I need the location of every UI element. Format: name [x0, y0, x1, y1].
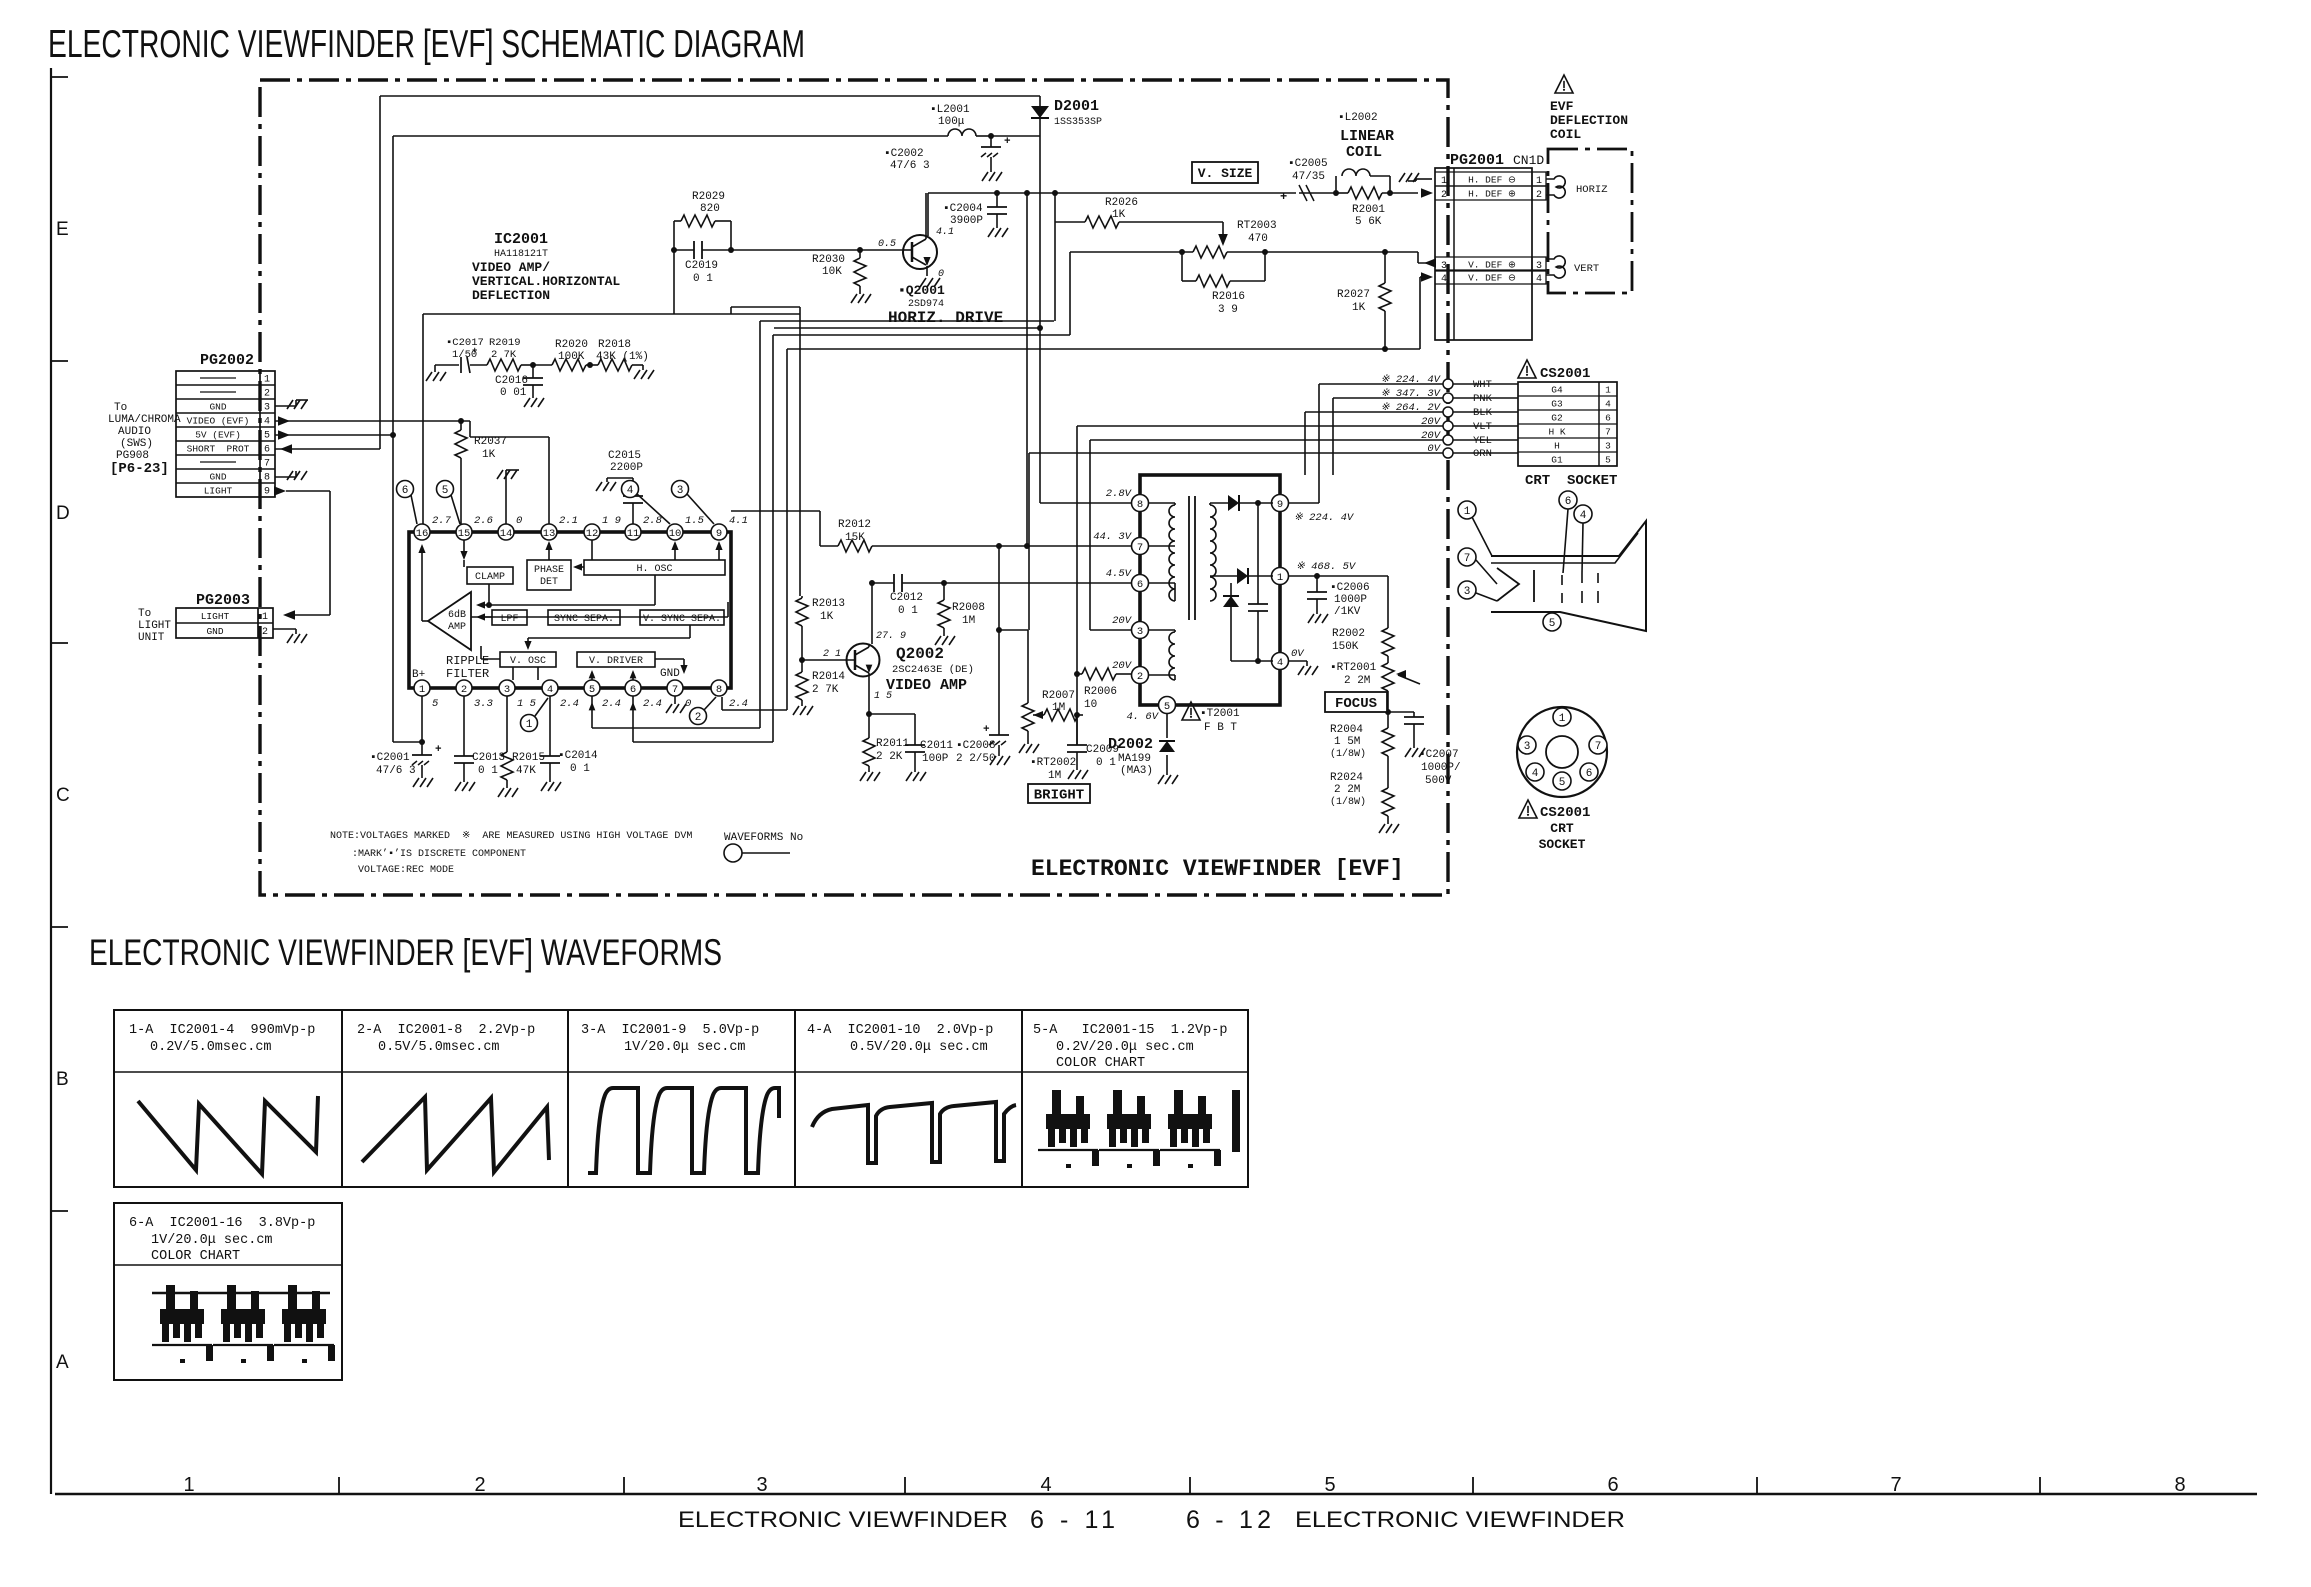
- svg-text:3 9: 3 9: [1218, 304, 1238, 316]
- wire 5V(EVF) run: [275, 434, 393, 436]
- svg-text:1K: 1K: [1112, 209, 1126, 221]
- page ruler: [55, 1474, 2257, 1496]
- wire y=307 jog: [731, 307, 800, 314]
- inductor L2002 / resistor R2001 parallel: [1336, 112, 1418, 228]
- svg-text:LIGHT: LIGHT: [204, 486, 233, 497]
- svg-text:COIL: COIL: [1346, 144, 1382, 161]
- svg-text:2: 2: [1536, 190, 1542, 201]
- svg-text:+: +: [1280, 190, 1287, 204]
- svg-text:To: To: [114, 402, 127, 414]
- svg-text:▪C2004: ▪C2004: [943, 203, 983, 215]
- wire pin5 bus: [589, 696, 760, 728]
- svg-text:6 - 11: 6 - 11: [1030, 1506, 1115, 1534]
- svg-text:1: 1: [262, 612, 268, 623]
- svg-text:C2013: C2013: [472, 752, 505, 764]
- svg-text:15: 15: [458, 528, 471, 540]
- T2001 diode top: [1228, 495, 1273, 511]
- waveform 3-A pulses: [588, 1088, 779, 1173]
- svg-text:HA118121T: HA118121T: [494, 249, 548, 260]
- svg-text:DEFLECTION: DEFLECTION: [1550, 113, 1628, 128]
- svg-text:※ 264. 2V: ※ 264. 2V: [1381, 402, 1442, 414]
- wire B+ rail y=742: [393, 739, 425, 745]
- svg-text:3: 3: [1464, 586, 1471, 598]
- resistor R2016: [1182, 252, 1265, 316]
- wire RT2003 arrow: [1218, 222, 1228, 246]
- svg-text:ELECTRONIC VIEWFINDER: ELECTRONIC VIEWFINDER: [1295, 1507, 1625, 1532]
- svg-text:6: 6: [402, 485, 409, 497]
- IC wire hosc to amp: [476, 575, 655, 609]
- connector CS2001 table: [1518, 382, 1617, 466]
- svg-text:7: 7: [1137, 542, 1143, 554]
- svg-text:5: 5: [442, 485, 449, 497]
- svg-text:2 2/50: 2 2/50: [956, 753, 996, 765]
- svg-text:FILTER: FILTER: [446, 667, 489, 681]
- resistor R2015: [498, 696, 545, 797]
- IC wire pin7 gnd: [666, 696, 686, 713]
- svg-text:R2026: R2026: [1105, 197, 1138, 209]
- svg-text:R2027: R2027: [1337, 289, 1370, 301]
- deflection VERT winding: [1546, 256, 1599, 278]
- svg-text:GND: GND: [660, 668, 680, 680]
- waveform 1-A sawtooth: [138, 1096, 318, 1174]
- svg-text:H K: H K: [1548, 427, 1565, 438]
- CRT socket circle: [1517, 707, 1607, 797]
- svg-text:COLOR CHART: COLOR CHART: [1056, 1056, 1145, 1071]
- svg-text:2SC2463E (DE): 2SC2463E (DE): [892, 664, 974, 676]
- capacitor C2007: [1388, 712, 1461, 787]
- T2001 primary winding: [1149, 503, 1175, 601]
- node callout 5: [437, 481, 461, 525]
- IC internal H.OSC: [584, 560, 725, 575]
- svg-text:1: 1: [1277, 572, 1283, 584]
- svg-text:1: 1: [1559, 713, 1566, 725]
- svg-text:3: 3: [504, 684, 510, 696]
- label FOCUS box: [1325, 692, 1387, 712]
- svg-text:2.4: 2.4: [643, 698, 662, 710]
- IC internal SYNC SEPA: [548, 610, 620, 625]
- capacitor C2017: [426, 337, 484, 381]
- svg-text:100μ: 100μ: [938, 116, 965, 128]
- label CS2001 CRT SOCKET: [1519, 800, 1590, 852]
- svg-text:H: H: [1554, 441, 1560, 452]
- svg-text:2.8: 2.8: [643, 515, 662, 527]
- svg-text:3.3: 3.3: [474, 698, 493, 710]
- wire bus y=328: [774, 327, 1040, 329]
- transformer T2001 body: [1140, 475, 1280, 705]
- svg-text:※ 224. 4V: ※ 224. 4V: [1381, 374, 1442, 386]
- T2001 diode mid: [1237, 568, 1273, 584]
- svg-text:4: 4: [1441, 274, 1447, 285]
- svg-text:3: 3: [1137, 626, 1143, 638]
- wire IC outer box top y=314: [423, 313, 800, 315]
- label ELECTRONIC VIEWFINDER EVF: [1031, 856, 1404, 882]
- svg-text:V. DEF ⊕: V. DEF ⊕: [1468, 260, 1516, 271]
- svg-text:G3: G3: [1551, 399, 1563, 410]
- note text: [330, 831, 692, 876]
- left margin ruler: [51, 68, 70, 1494]
- svg-text:10K: 10K: [822, 266, 842, 278]
- wire x=1029 ORN riser: [1028, 453, 1030, 630]
- svg-text:▪C2005: ▪C2005: [1288, 158, 1328, 170]
- wire bright feed: [996, 627, 1028, 703]
- svg-text:10: 10: [1084, 699, 1097, 711]
- IC wire hosc arrow pin10: [671, 541, 678, 560]
- waveform 6-A color chart: [152, 1285, 335, 1363]
- wire pin8 feed: [1040, 502, 1131, 504]
- svg-text:HORIZ: HORIZ: [1576, 184, 1608, 196]
- T2001 secondary winding: [1210, 503, 1237, 601]
- svg-text:AUDIO: AUDIO: [118, 426, 151, 438]
- svg-text:ORN: ORN: [1473, 448, 1492, 460]
- svg-text:VIDEO (EVF): VIDEO (EVF): [187, 416, 250, 427]
- node callout 4t: [622, 481, 671, 525]
- svg-text:6: 6: [1607, 1474, 1618, 1496]
- IC wire hosc arrow pin9: [715, 541, 722, 560]
- svg-text:R2001: R2001: [1352, 204, 1385, 216]
- svg-text:2: 2: [1137, 671, 1143, 683]
- svg-text:C2016: C2016: [495, 375, 528, 387]
- node callout 1b: [521, 698, 549, 732]
- svg-text:LIGHT: LIGHT: [138, 620, 171, 632]
- node callout 3t: [672, 481, 715, 525]
- svg-text:4: 4: [547, 684, 553, 696]
- svg-text:4-A IC2001-10 2.0Vp-p: 4-A IC2001-10 2.0Vp-p: [807, 1023, 993, 1038]
- capacitor C2014: [540, 696, 598, 791]
- svg-text:1/50: 1/50: [452, 349, 477, 361]
- footer right: [1186, 1506, 1625, 1534]
- svg-text:UNIT: UNIT: [138, 632, 165, 644]
- resistor R2027: [1337, 252, 1391, 352]
- svg-text:CS2001: CS2001: [1540, 805, 1590, 821]
- svg-text:R2024: R2024: [1330, 772, 1363, 784]
- svg-text:▪RT2001: ▪RT2001: [1330, 662, 1377, 674]
- wire y=583 c2012 rail: [872, 580, 1131, 586]
- svg-text:4.1: 4.1: [936, 227, 954, 238]
- resistor R2012: [838, 519, 872, 552]
- svg-text:R2018: R2018: [598, 339, 631, 351]
- svg-text:D2001: D2001: [1054, 98, 1099, 115]
- svg-text:※ 347. 3V: ※ 347. 3V: [1381, 388, 1442, 400]
- label T2001 FBT: [1182, 702, 1240, 734]
- svg-text:2.7: 2.7: [432, 515, 452, 527]
- svg-text:(SWS): (SWS): [120, 438, 153, 450]
- svg-text:5 6K: 5 6K: [1355, 216, 1382, 228]
- svg-text:ELECTRONIC VIEWFINDER: ELECTRONIC VIEWFINDER: [678, 1507, 1008, 1532]
- svg-text:6: 6: [1586, 768, 1593, 780]
- svg-text:1 9: 1 9: [602, 515, 621, 527]
- T2001 pin 5: [1159, 697, 1176, 714]
- svg-text:2: 2: [461, 684, 467, 696]
- label Q2002: [886, 645, 974, 694]
- svg-text:7: 7: [1605, 427, 1611, 438]
- IC wire lpf link: [471, 616, 492, 618]
- wire bus x=800: [799, 307, 801, 596]
- svg-text:2 7K: 2 7K: [491, 349, 517, 361]
- label EVF DEFLECTION COIL: [1550, 75, 1628, 142]
- label BRIGHT box: [1028, 784, 1090, 804]
- svg-text:820: 820: [700, 203, 720, 215]
- svg-text:ELECTRONIC VIEWFINDER [EVF] WA: ELECTRONIC VIEWFINDER [EVF] WAVEFORMS: [89, 932, 722, 973]
- svg-text:3-A IC2001-9 5.0Vp-p: 3-A IC2001-9 5.0Vp-p: [581, 1023, 759, 1038]
- svg-text:6: 6: [264, 445, 270, 456]
- label CRT SOCKET: [1525, 473, 1617, 489]
- svg-text:※ 224. 4V: ※ 224. 4V: [1294, 512, 1355, 524]
- svg-text:7: 7: [1890, 1474, 1901, 1496]
- svg-text::MARK’▪’IS DISCRETE COMPONENT: :MARK’▪’IS DISCRETE COMPONENT: [352, 848, 526, 860]
- svg-text:2: 2: [695, 712, 702, 724]
- svg-text:1 5M: 1 5M: [1334, 736, 1360, 748]
- wire PNK riser: [1332, 398, 1334, 475]
- IC U IC2001 body with pins: [409, 524, 731, 696]
- svg-text:8: 8: [716, 684, 722, 696]
- svg-text:D: D: [56, 503, 70, 524]
- IC internal 6dB AMP: [428, 592, 471, 650]
- IC pin voltage labels: [432, 515, 748, 710]
- svg-text:2.8V: 2.8V: [1106, 488, 1133, 500]
- svg-text:47/6 3: 47/6 3: [376, 765, 416, 777]
- svg-text:RIPPLE: RIPPLE: [446, 654, 489, 668]
- svg-text:2: 2: [474, 1474, 485, 1496]
- svg-text:SHORT PROT: SHORT PROT: [187, 444, 250, 455]
- svg-text:8: 8: [264, 473, 270, 484]
- capacitor C2001: [370, 696, 442, 787]
- capacitor C2005: [1280, 158, 1339, 204]
- svg-text:R2019: R2019: [489, 337, 521, 349]
- svg-text:47K: 47K: [516, 765, 536, 777]
- wire pin6 bus: [630, 696, 773, 742]
- svg-text:5-A IC2001-15 1.2Vp-p: 5-A IC2001-15 1.2Vp-p: [1033, 1023, 1227, 1038]
- svg-text:2-A IC2001-8 2.2Vp-p: 2-A IC2001-8 2.2Vp-p: [357, 1023, 535, 1038]
- IC wire vdriver pin8: [655, 659, 688, 674]
- svg-text:1000P/: 1000P/: [1421, 762, 1461, 774]
- wire Q2001 collector: [927, 193, 929, 236]
- IC internal V.SYNC SEPA: [640, 610, 724, 625]
- svg-text:2.4: 2.4: [729, 698, 748, 710]
- svg-text:GND: GND: [209, 472, 226, 483]
- svg-text:Q2002: Q2002: [896, 645, 944, 663]
- svg-text:PHASE: PHASE: [534, 565, 564, 576]
- node callout 6: [397, 481, 418, 525]
- svg-text:1K: 1K: [1352, 302, 1366, 314]
- svg-text:G4: G4: [1551, 385, 1563, 396]
- resistor R2026: [1055, 197, 1223, 228]
- waveform 4-A pulses: [812, 1102, 1016, 1163]
- svg-text:4: 4: [1536, 274, 1542, 285]
- waveform 2-A sawtooth: [362, 1097, 549, 1172]
- label CS2001: [1518, 360, 1590, 382]
- svg-text:AMP: AMP: [448, 622, 466, 633]
- svg-text:3: 3: [264, 403, 270, 414]
- svg-text:WHT: WHT: [1473, 379, 1492, 391]
- svg-text:GND: GND: [209, 402, 226, 413]
- svg-text:2: 2: [262, 627, 268, 638]
- T2001 rect diode up: [1223, 583, 1239, 661]
- wire top rail y=96: [380, 95, 1040, 97]
- node callout 2b: [690, 697, 717, 725]
- capacitor C2009: [1067, 715, 1119, 779]
- svg-text:5: 5: [432, 698, 439, 710]
- CRT funnel callout 3: [1458, 581, 1497, 601]
- svg-text:0 1: 0 1: [478, 765, 498, 777]
- CRT funnel callout 4: [1574, 505, 1592, 573]
- svg-text:1.5: 1.5: [685, 515, 705, 527]
- svg-text:6-A IC2001-16 3.8Vp-p: 6-A IC2001-16 3.8Vp-p: [129, 1216, 315, 1231]
- IC wire vdriver pins56: [589, 670, 637, 680]
- svg-text:4: 4: [1532, 768, 1539, 780]
- ground pin1 HDEF: [1399, 173, 1432, 182]
- svg-text:4: 4: [1040, 1474, 1051, 1496]
- waveforms title: [89, 932, 722, 973]
- svg-text:LIGHT: LIGHT: [201, 611, 230, 622]
- IC wire phase det in: [573, 563, 584, 570]
- svg-text:C2019: C2019: [685, 260, 718, 272]
- wire pin8 bus: [722, 697, 787, 710]
- svg-text:R2029: R2029: [692, 191, 725, 203]
- svg-text:1: 1: [183, 1474, 194, 1496]
- T2001 core: [1189, 496, 1195, 620]
- wire IC outer box left x=423: [422, 314, 424, 525]
- IC wire clamp down: [486, 584, 492, 608]
- svg-text:0 01: 0 01: [500, 387, 527, 399]
- svg-text:LINEAR: LINEAR: [1340, 128, 1394, 145]
- wire collector x=872: [869, 580, 875, 644]
- capacitor C2012: [890, 574, 923, 617]
- svg-text:2200P: 2200P: [610, 462, 643, 474]
- IC wire vsync to vosc: [524, 625, 690, 650]
- svg-text:1: 1: [1464, 506, 1471, 518]
- wire x=1077 VLT riser: [1076, 426, 1078, 745]
- svg-text:5V (EVF): 5V (EVF): [195, 430, 241, 441]
- svg-text:15K: 15K: [845, 532, 865, 544]
- IC wire hosc pin12: [591, 540, 593, 560]
- svg-text:0V: 0V: [1291, 648, 1305, 660]
- svg-text:2.6: 2.6: [474, 515, 493, 527]
- svg-text:▪C2008: ▪C2008: [956, 740, 996, 752]
- svg-text:7: 7: [1595, 741, 1602, 753]
- svg-text:R2030: R2030: [812, 254, 845, 266]
- label IC2001 heading: [472, 231, 620, 303]
- IC internal CLAMP: [467, 567, 513, 584]
- T2001 pin 8: [1132, 495, 1149, 512]
- T2001 pin 4r: [1272, 653, 1289, 670]
- svg-text:1M: 1M: [962, 615, 975, 627]
- svg-text:0: 0: [516, 515, 522, 527]
- footer left: [678, 1506, 1115, 1534]
- wire emitter node: [866, 700, 915, 717]
- svg-text:C: C: [56, 785, 70, 806]
- resistor R2030: [812, 250, 871, 303]
- svg-text:3: 3: [1524, 741, 1531, 753]
- svg-text:2 1: 2 1: [823, 649, 841, 660]
- svg-text:(1/8W): (1/8W): [1330, 796, 1366, 808]
- wire pin3 feed: [1090, 629, 1131, 631]
- svg-text:0.2V/5.0msec.cm: 0.2V/5.0msec.cm: [150, 1040, 272, 1055]
- svg-text:B+: B+: [412, 669, 425, 681]
- svg-text:1-A IC2001-4 990mVp-p: 1-A IC2001-4 990mVp-p: [129, 1023, 315, 1038]
- wire SHORT PROT run: [275, 444, 380, 454]
- label B+ / RIPPLE FILTER / GND: [412, 654, 680, 681]
- svg-text:BRIGHT: BRIGHT: [1034, 788, 1084, 804]
- svg-text:▪Q2001: ▪Q2001: [898, 283, 945, 298]
- svg-text:1: 1: [264, 375, 270, 386]
- svg-text:▪C2001: ▪C2001: [370, 752, 410, 764]
- capacitor C2015: [596, 450, 643, 525]
- svg-text:PNK: PNK: [1473, 393, 1493, 405]
- svg-text:▪C2017: ▪C2017: [446, 337, 484, 349]
- svg-text:※ 468. 5V: ※ 468. 5V: [1296, 561, 1357, 573]
- svg-text:6 - 12: 6 - 12: [1186, 1506, 1271, 1534]
- svg-text:HORIZ. DRIVE: HORIZ. DRIVE: [888, 309, 1003, 327]
- svg-text:0.5V/5.0msec.cm: 0.5V/5.0msec.cm: [378, 1040, 500, 1055]
- svg-text:0 1: 0 1: [570, 763, 590, 775]
- wire base drive y=250: [731, 247, 903, 253]
- svg-text:VOLTAGE:REC MODE: VOLTAGE:REC MODE: [358, 865, 454, 876]
- svg-text:DEFLECTION: DEFLECTION: [472, 288, 550, 303]
- svg-text:▪C2014: ▪C2014: [558, 750, 598, 762]
- svg-text:1: 1: [419, 684, 425, 696]
- svg-text:C2011: C2011: [920, 740, 953, 752]
- IC wire pin15 to clamp: [460, 540, 467, 567]
- svg-text:E: E: [56, 219, 69, 240]
- resistor R2002: [1332, 576, 1394, 663]
- wire x=1090 YEL riser: [1089, 440, 1091, 630]
- svg-text:R2008: R2008: [952, 602, 985, 614]
- IC internal V.DRIVER: [577, 652, 655, 667]
- svg-text:14: 14: [500, 528, 513, 540]
- waveform 5-A color chart: [1038, 1090, 1240, 1168]
- svg-text:5: 5: [1164, 701, 1170, 713]
- svg-text:20V: 20V: [1421, 430, 1442, 442]
- svg-text:1V/20.0μ sec.cm: 1V/20.0μ sec.cm: [624, 1040, 746, 1055]
- T2001 pin 3: [1132, 622, 1149, 639]
- svg-text:8: 8: [2174, 1474, 2185, 1496]
- svg-text:2.4: 2.4: [560, 698, 579, 710]
- capacitor C2016: [495, 365, 544, 407]
- capacitor C2008: [956, 546, 1010, 765]
- wire arrow pin2 HDEF: [1421, 188, 1433, 198]
- svg-text:0.2V/20.0μ sec.cm: 0.2V/20.0μ sec.cm: [1056, 1040, 1194, 1055]
- CRT funnel drawing: [1491, 521, 1646, 631]
- svg-text:3: 3: [756, 1474, 767, 1496]
- svg-text:▪C2007: ▪C2007: [1419, 749, 1459, 761]
- svg-text:27. 9: 27. 9: [876, 631, 906, 642]
- svg-text:V. OSC: V. OSC: [510, 656, 546, 667]
- label To LIGHT UNIT: [138, 608, 171, 644]
- T2001 filter cap: [1248, 503, 1268, 664]
- IC internal LPF: [492, 610, 527, 625]
- wire bus y=349: [787, 348, 1385, 350]
- svg-text:R2014: R2014: [812, 671, 845, 683]
- svg-text:7: 7: [672, 684, 678, 696]
- svg-text:F B T: F B T: [1204, 722, 1237, 734]
- svg-text:R2013: R2013: [812, 598, 845, 610]
- svg-text:0: 0: [938, 269, 944, 280]
- svg-text:C2015: C2015: [608, 450, 641, 462]
- svg-text:R2016: R2016: [1212, 291, 1245, 303]
- wire bus x=760: [759, 321, 761, 728]
- svg-text:+: +: [435, 744, 442, 756]
- svg-text:10: 10: [669, 528, 682, 540]
- svg-text:CS2001: CS2001: [1540, 366, 1590, 382]
- wire V.DEF- to pin4: [1385, 272, 1433, 349]
- svg-text:CLAMP: CLAMP: [475, 572, 505, 583]
- svg-text:100K: 100K: [558, 351, 585, 363]
- IC wire phase-det arrow pin13: [545, 541, 552, 560]
- wire 5V bus x=393: [390, 136, 396, 742]
- svg-text:B: B: [56, 1069, 69, 1090]
- svg-text:4: 4: [1580, 510, 1587, 522]
- wire SHORT PROT bus x=380: [379, 96, 381, 449]
